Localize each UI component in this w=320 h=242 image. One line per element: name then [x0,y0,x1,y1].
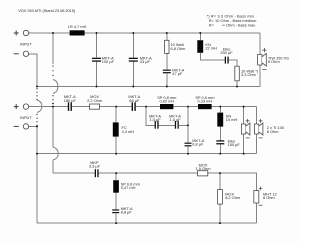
wire plus bus dotted 1 [52,66,54,79]
junction mid rail / Elko branch [219,153,221,155]
wire tweeter minus drop [255,203,257,223]
capacitor MKT-A 33 uF (bass) [129,33,152,87]
capacitor Elko 330 uF [220,46,237,66]
svg-text:INPUT: INPUT [20,115,32,120]
junction tweeter feed / SP branch [115,172,117,174]
junction mid wire / LC right [187,106,189,108]
wire mid + input [29,106,68,108]
svg-text:8 Ohm: 8 Ohm [268,59,280,64]
wire tweeter feed segment 2 [99,172,198,174]
capacitor MKT-A 1,0 uF (left) [149,113,161,128]
wire plus bus to tweeter feed [52,160,54,173]
junction top wire / plus bus [52,32,54,34]
svg-text:2,2 Ohm: 2,2 Ohm [87,98,102,103]
svg-text:47 µF: 47 µF [172,71,183,76]
wire minus bus hop over mid + wire [37,100,42,113]
svg-text:68 µF: 68 µF [129,98,140,103]
junction mid rail / minus bus [36,153,38,155]
wire bottom rail [37,222,256,224]
junction mid wire / FC branch [115,106,117,108]
wire mid - input [29,125,37,127]
wire mid bottom rail [37,153,257,155]
svg-text:150 µF: 150 µF [228,142,241,147]
capacitor Elko 150 uF [216,138,240,153]
junction mid rail / TI100 left [243,153,245,155]
svg-text:VOX 253 MTI (Stand 23.06.2015): VOX 253 MTI (Stand 23.06.2015) [18,8,76,13]
svg-text:3,3 mH: 3,3 mH [122,129,135,134]
resistor MOX 8,2 Ohm [218,173,241,223]
wire plus bus dotted 2 [52,96,54,107]
junction bass rail / 33uF branch [132,86,134,88]
svg-text:6,8 Ohm: 6,8 Ohm [171,46,186,51]
svg-text:LR 4,7 mH: LR 4,7 mH [68,24,87,29]
svg-text:0,33 mH: 0,33 mH [198,98,213,103]
junction top wire / 33uF branch [132,32,134,34]
junction bottom rail / SP branch [115,222,117,224]
junction mid wire / plus bus [52,106,54,108]
input terminal - (mid) [14,124,29,129]
svg-text:330 µF: 330 µF [220,50,233,55]
capacitor MKT-A 6,8 uF (tweeter) [112,206,133,223]
input terminal + (mid) [14,104,29,109]
input terminal + (top) [14,30,29,35]
capacitor MKT-A 6,8 uF (mid) [185,138,205,147]
svg-text:0,82 mH: 0,82 mH [159,98,174,103]
svg-text:3,3 Ohm: 3,3 Ohm [241,72,256,77]
wire bass bottom rail [37,86,260,88]
speaker TI 100 (left) [241,107,250,154]
svg-text:8,2 Ohm: 8,2 Ohm [225,195,240,200]
resistor 10 Watt 6,8 Ohm [165,33,186,87]
junction mid rail / FC branch [115,153,117,155]
junction mid wire / LC left [145,106,147,108]
junction mid wire / KN 10mH branch [219,106,221,108]
svg-text:100 µF: 100 µF [102,59,115,64]
junction mid - input / minus bus [36,125,38,127]
wire mid rail segment 1 [72,106,90,108]
svg-text:3,3 µF: 3,3 µF [89,164,101,169]
junction bass rail / 100uF branch [96,86,98,88]
svg-text:8 Ohm: 8 Ohm [263,195,275,200]
wire plus bus upper [52,33,54,64]
inductor SP 0,6 mm 0,33 mH [195,95,214,109]
svg-text:22 mH: 22 mH [205,46,217,51]
note resistor options [207,13,257,27]
inductor KN 22 mH [197,33,224,60]
wire minus bus dotted segment [36,89,38,100]
wire plus bus mid segment [52,107,54,147]
svg-text:∞ Ohm - Bass max.: ∞ Ohm - Bass max. [222,22,256,27]
svg-text:1,5 Ohm: 1,5 Ohm [196,166,211,171]
capacitor MKT-A 68 uF (mid) [128,94,140,111]
junction mid wire / TI100 left [243,106,245,108]
junction top wire / 100uF branch [96,32,98,34]
wire tweeter feed segment 3 [208,173,257,191]
junction bass rail / minus bus [36,86,38,88]
speaker TI 100 (right) [254,107,284,154]
inductor FC 3,3 mH [113,107,134,154]
wire mid rail segment 2 [100,106,132,108]
inductor SP 0,6 mm 0,47 mH [113,173,140,209]
capacitor MKT-A 100 uF (bass) [92,33,115,87]
svg-text:6,8 µF: 6,8 µF [121,210,133,215]
inductor LR 4,7 mH [70,30,85,35]
wire tweeter feed [53,172,95,174]
svg-text:1,0 µF: 1,0 µF [150,117,162,122]
dot plus bus [52,103,54,105]
svg-text:180 µF: 180 µF [64,98,77,103]
svg-text:INPUT: INPUT [20,41,32,46]
wire woofer minus drop [259,65,261,86]
svg-text:10 mH: 10 mH [226,117,238,122]
wire plus bus hop over bass rail [53,80,58,94]
junction bass rail / 3,3 Ohm branch [236,86,238,88]
capacitor MKT-A 47 uF (bass) [163,67,185,76]
svg-text:R=: R= [209,22,215,27]
resistor 10 Watt 3,3 Ohm [235,66,259,86]
wire minus bus lower [36,126,38,223]
wire LC right vertical with 6,8uF drop [187,107,189,154]
capacitor MKT-A 100 uF (mid) [64,94,77,111]
inductor KN 10 mH [217,107,237,141]
junction bottom rail / 8,2 Ohm branch [219,222,221,224]
junction top wire / KN 22mH branch [199,32,201,34]
wire top main rail [85,32,260,34]
svg-text:6,8 µF: 6,8 µF [192,142,204,147]
wire mid rail segment 5 [212,106,257,108]
junction tweeter feed / 8,2 Ohm branch [219,172,221,174]
svg-text:33 µF: 33 µF [140,59,151,64]
wire top + input to coil [29,32,70,34]
wire top right drop to woofer [259,33,261,55]
junction top wire / 6,8 Ohm branch [166,32,168,34]
wire top - input to bus [29,54,37,87]
speaker TIW 250 XS [258,48,290,70]
wire mid rail segment 4 [173,106,198,108]
inductor SP 0,8 mm 0,82 mH [157,95,176,109]
wire mid rail segment 3 [136,106,160,108]
wire plus bus hop over mid rail [53,147,58,160]
svg-text:0,47 mH: 0,47 mH [121,185,136,190]
input terminal - (top) [14,51,29,56]
junction LC bypass / 6,8uF [187,124,189,126]
resistor MOX 2,2 Ohm [87,94,102,109]
capacitor MKT-A 1,0 uF (right) [169,113,181,128]
junction bass rail / 47uF branch [166,86,168,88]
wire LC bypass branch [146,107,188,126]
svg-text:8 Ohm: 8 Ohm [267,129,279,134]
wire minus bus dotted lower [36,115,38,127]
capacitor MKP 3,3 uF [89,160,101,177]
tweeter MHT 12 [254,186,277,205]
resistor MOX 1,5 Ohm [196,162,211,176]
svg-text:1,0 µF: 1,0 µF [170,117,182,122]
junction mid rail / 6,8uF branch [187,153,189,155]
